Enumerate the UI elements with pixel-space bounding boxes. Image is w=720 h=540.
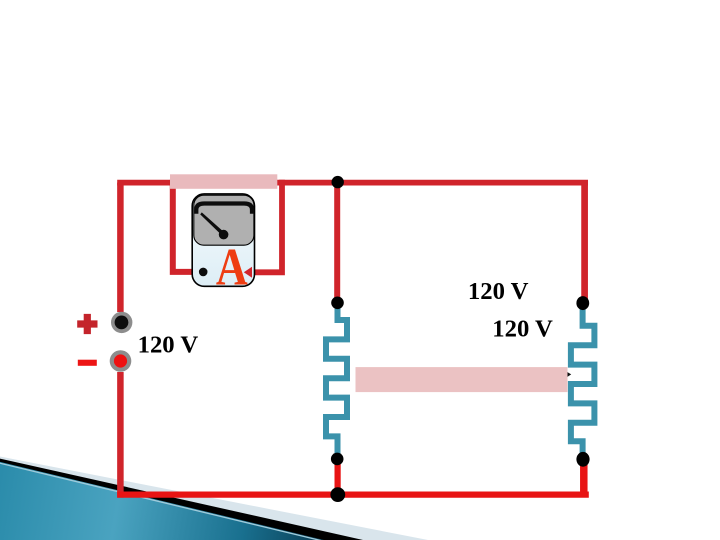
wire: ammeter right branch [250, 180, 282, 273]
ammeter A1 left terminal dot [199, 268, 208, 277]
svg-text:120 V: 120 V [138, 331, 199, 358]
minus symbol [78, 360, 97, 366]
decorative teal wedge top rim [0, 463, 324, 540]
wire: ammeter left branch [173, 180, 201, 272]
decorative black sliver [0, 459, 363, 540]
ammeter A1 display [194, 195, 254, 245]
highlight band over ammeter top wire [170, 174, 277, 189]
resistor R2 (right branch, zigzag) [571, 303, 595, 459]
decorative pale swoosh (bottom-left corner) [0, 457, 428, 540]
wire: top horizontal [117, 180, 588, 186]
ammeter A1 needle [200, 212, 224, 235]
hidden arrowhead poking out of middle highlight band [566, 371, 571, 377]
node: bottom wire / middle branch junction [330, 487, 345, 502]
wire: middle branch upper vertical [334, 183, 340, 303]
wire: middle branch lower vertical [335, 459, 341, 495]
highlight band between resistors [356, 367, 568, 392]
battery + terminal (top, black) [111, 312, 132, 333]
battery - terminal (bottom, red) [110, 350, 132, 372]
wire: bottom horizontal [117, 492, 589, 498]
wire: left side upper (battery + terminal to top-left corner) [117, 183, 124, 312]
svg-text:120 V: 120 V [468, 278, 529, 305]
wire: right side vertical [581, 183, 588, 302]
node: R2 top [576, 296, 589, 310]
resistor R1 (middle branch, zigzag) [326, 303, 347, 459]
svg-text:120 V: 120 V [492, 315, 553, 342]
ammeter A1 body [192, 194, 254, 286]
current direction arrowhead (red, at ammeter right terminal) [244, 267, 252, 278]
ammeter A1 scale arc [196, 204, 252, 214]
wire: right lower vertical (resistor R2 bottom to bottom wire) [580, 458, 588, 494]
wire: left side lower (battery - terminal to bottom wire) [117, 372, 124, 498]
node: R1 bottom [331, 453, 344, 466]
node: R1 top [331, 297, 344, 310]
decorative teal wedge [0, 462, 324, 540]
plus symbol [77, 314, 97, 334]
node: top wire / middle branch junction [332, 176, 344, 188]
node: R2 bottom [576, 452, 589, 467]
svg-text:A: A [216, 239, 248, 296]
